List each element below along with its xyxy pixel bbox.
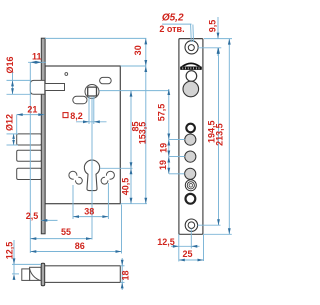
8,2 outside arrows	[83, 120, 89, 123]
wire: latch tip vertical extension	[29, 62, 31, 253]
ear slot left	[69, 171, 77, 179]
svg-text:86: 86	[75, 241, 85, 251]
wire: bottom view plate top extension	[12, 263, 41, 265]
logo	[181, 63, 201, 67]
Ø12 inside arrows	[12, 134, 15, 139]
wire: keyhole centerline	[91, 97, 93, 240]
lock case (front view)	[45, 66, 120, 204]
55 arrows	[30, 237, 36, 240]
grommet rings	[185, 180, 196, 191]
wire: 86 dim line	[30, 251, 121, 253]
213,5 arrows	[228, 39, 231, 45]
case band	[44, 266, 120, 283]
wire: Ø12 dim vertical	[13, 134, 15, 145]
svg-text:21: 21	[27, 104, 37, 114]
oval hole B	[73, 96, 87, 104]
wire: strip bottom extension	[204, 233, 232, 235]
wire: Ø16 dim vertical	[12, 70, 14, 94]
wire: keyhole center leader right	[100, 167, 133, 169]
wire: 30/153,5 dim vertical	[145, 38, 147, 203]
faceplate strip	[179, 39, 203, 235]
wire: bottom view latch center extension	[12, 273, 19, 275]
svg-text:2,5: 2,5	[26, 211, 39, 221]
wire: 21 left extension	[16, 115, 18, 134]
wire: square hole leaders for 8,2	[88, 97, 90, 125]
57,5 arrows	[167, 89, 170, 95]
label □8,2	[63, 113, 68, 118]
wire: square center leader right	[99, 90, 169, 92]
12,5 right outside arrows	[173, 245, 179, 248]
svg-text:55: 55	[61, 227, 71, 237]
40,5 arrows	[130, 168, 133, 174]
194,5 arrows	[217, 48, 220, 54]
arrows (dark blue)	[11, 33, 231, 289]
wire: 85/40,5 dim vertical	[130, 91, 132, 204]
svg-text:11: 11	[32, 52, 42, 62]
wire: 194,5 dim vertical	[218, 48, 220, 225]
wire: 12,5 left dim vertical	[13, 240, 15, 274]
latch full width band	[30, 267, 42, 280]
faceplate cross-section	[41, 263, 45, 286]
svg-text:57,5: 57,5	[156, 104, 166, 122]
latch bevel curve	[30, 269, 40, 281]
wire: strip top extension	[204, 38, 232, 40]
bottom screw hole	[185, 219, 197, 231]
wire: 18 dim extensions	[120, 265, 124, 267]
wire: 2,5 leader	[41, 219, 57, 221]
wire: 38 extensions	[72, 185, 74, 219]
wire: strip left edge extension down	[178, 234, 180, 261]
wire: 12,5 right dim line	[171, 245, 200, 247]
svg-text:153,5: 153,5	[138, 122, 148, 145]
oval hole A	[100, 77, 112, 83]
wire: 55 dim line	[30, 238, 92, 240]
ear slot right	[106, 171, 114, 179]
wire: Ø12 extensions	[7, 133, 19, 135]
svg-text:Ø16: Ø16	[5, 56, 15, 73]
25 arrows	[179, 259, 185, 262]
21 arrows inside	[17, 113, 23, 116]
wire: Ø5,2 label shelf	[162, 23, 191, 25]
wire: top screw center extension	[198, 47, 221, 49]
wire: 9,5 dim vertical	[217, 17, 219, 39]
svg-text:38: 38	[84, 206, 94, 216]
gray circle 3	[185, 168, 196, 179]
wire: case right edge extension	[121, 205, 123, 254]
svg-text:12,5: 12,5	[157, 237, 175, 247]
svg-text:12,5: 12,5	[5, 242, 15, 260]
19/19 arrows	[167, 140, 170, 146]
latch bolt body	[45, 84, 65, 91]
wire: 213,5 dim vertical	[228, 39, 230, 235]
wire: small circles leaders	[169, 139, 185, 141]
38 arrows	[73, 215, 79, 218]
wire: bottom screw vertical extension down	[190, 229, 192, 249]
18 outside arrows	[121, 260, 124, 266]
wire: 21 dim line	[17, 114, 45, 116]
latch tip	[22, 269, 30, 281]
svg-text:8,2: 8,2	[70, 111, 83, 121]
12,5 left arrows	[13, 258, 16, 264]
top screw hole	[185, 41, 198, 54]
wire: plate-top extension + 11 dim line	[45, 37, 146, 39]
wire: case bottom extension right	[121, 203, 148, 205]
svg-text:Ø12: Ø12	[5, 114, 15, 131]
wire: strip right edge extension down	[203, 234, 205, 261]
2,5 left arrow	[41, 219, 47, 222]
cylinder hole (gray)	[183, 81, 199, 97]
keyhole	[84, 160, 99, 191]
153,5 arrows	[144, 66, 147, 72]
svg-text:18: 18	[120, 270, 130, 280]
spindle circle	[85, 85, 99, 99]
small circle under logo	[186, 71, 197, 82]
11 dim arrows	[30, 61, 36, 64]
wire: 18 dim vertical	[121, 258, 123, 290]
svg-text:40,5: 40,5	[121, 178, 131, 196]
svg-text:213,5: 213,5	[214, 123, 224, 146]
wire: 38 dim line	[73, 216, 108, 218]
wire: 25 dim line	[179, 259, 204, 261]
wire: 57,5 dim vertical	[168, 89, 170, 174]
thick circle	[186, 194, 196, 204]
86 arrows	[30, 250, 36, 253]
latch bolt nose	[30, 80, 45, 94]
svg-text:30: 30	[133, 45, 143, 55]
deadbolt bars	[17, 134, 42, 180]
svg-text:9,5: 9,5	[207, 20, 217, 33]
9,5 outside arrows	[217, 33, 220, 39]
30 arrows	[144, 38, 147, 44]
rivet dot	[65, 73, 68, 76]
small thick circle	[186, 124, 195, 133]
85 arrows	[130, 91, 133, 97]
spindle square 8,2	[88, 87, 97, 96]
Ø16 inside arrows	[11, 80, 14, 86]
wire: latch top/bottom extensions for Ø16	[7, 79, 32, 81]
svg-text:Ø5,2: Ø5,2	[162, 13, 184, 24]
svg-text:25: 25	[182, 249, 192, 259]
gray circle 2	[185, 151, 196, 162]
svg-text:19: 19	[159, 143, 169, 153]
svg-text:19: 19	[158, 160, 168, 170]
svg-text:2 отв.: 2 отв.	[159, 24, 184, 34]
gray circle 1	[185, 134, 196, 145]
wire: bottom screw center extension	[198, 224, 221, 226]
faceplate edge-on	[41, 38, 45, 234]
